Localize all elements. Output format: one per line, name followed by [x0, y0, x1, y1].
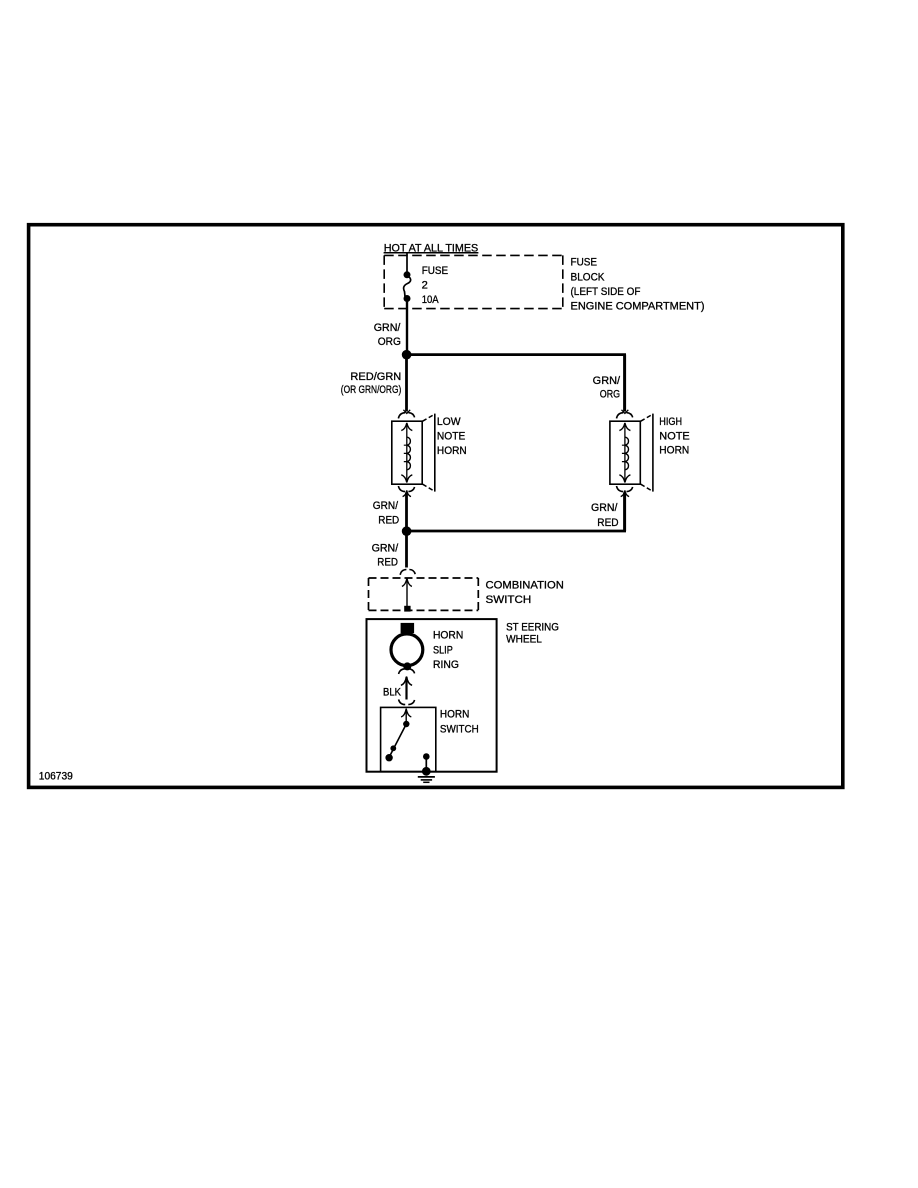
svg-text:COMBINATION: COMBINATION — [486, 579, 564, 591]
svg-text:GRN/: GRN/ — [593, 375, 620, 387]
svg-text:HIGH: HIGH — [659, 416, 682, 428]
svg-text:(LEFT SIDE OF: (LEFT SIDE OF — [571, 286, 641, 298]
svg-text:RED/GRN: RED/GRN — [350, 371, 401, 383]
svg-text:WHEEL: WHEEL — [506, 633, 542, 645]
svg-text:RING: RING — [433, 659, 459, 671]
svg-text:10A: 10A — [422, 294, 440, 306]
svg-text:GRN/: GRN/ — [591, 502, 617, 514]
svg-text:BLK: BLK — [383, 686, 402, 698]
svg-text:SWITCH: SWITCH — [486, 594, 532, 606]
svg-text:BLOCK: BLOCK — [571, 271, 606, 283]
svg-text:NOTE: NOTE — [437, 430, 465, 442]
svg-text:LOW: LOW — [437, 416, 461, 428]
svg-text:RED: RED — [378, 514, 399, 526]
svg-text:SLIP: SLIP — [433, 645, 453, 657]
svg-text:HORN: HORN — [433, 629, 463, 641]
svg-text:RED: RED — [377, 557, 398, 569]
svg-text:GRN/: GRN/ — [372, 542, 399, 554]
svg-text:ORG: ORG — [378, 336, 401, 348]
svg-text:HORN: HORN — [437, 445, 467, 457]
svg-text:ORG: ORG — [600, 389, 620, 401]
svg-text:HORN: HORN — [659, 445, 689, 457]
svg-text:GRN/: GRN/ — [374, 322, 401, 334]
svg-text:2: 2 — [422, 280, 428, 292]
svg-text:HORN: HORN — [440, 709, 470, 721]
svg-text:FUSE: FUSE — [422, 265, 448, 277]
svg-text:ST EERING: ST EERING — [506, 621, 559, 633]
svg-text:RED: RED — [597, 517, 618, 529]
svg-text:FUSE: FUSE — [571, 257, 598, 269]
svg-text:SWITCH: SWITCH — [440, 723, 479, 735]
svg-text:106739: 106739 — [39, 771, 73, 783]
svg-text:GRN/: GRN/ — [373, 500, 398, 512]
svg-text:(OR GRN/ORG): (OR GRN/ORG) — [341, 384, 402, 396]
svg-text:ENGINE COMPARTMENT): ENGINE COMPARTMENT) — [571, 301, 705, 313]
svg-text:NOTE: NOTE — [659, 431, 689, 443]
